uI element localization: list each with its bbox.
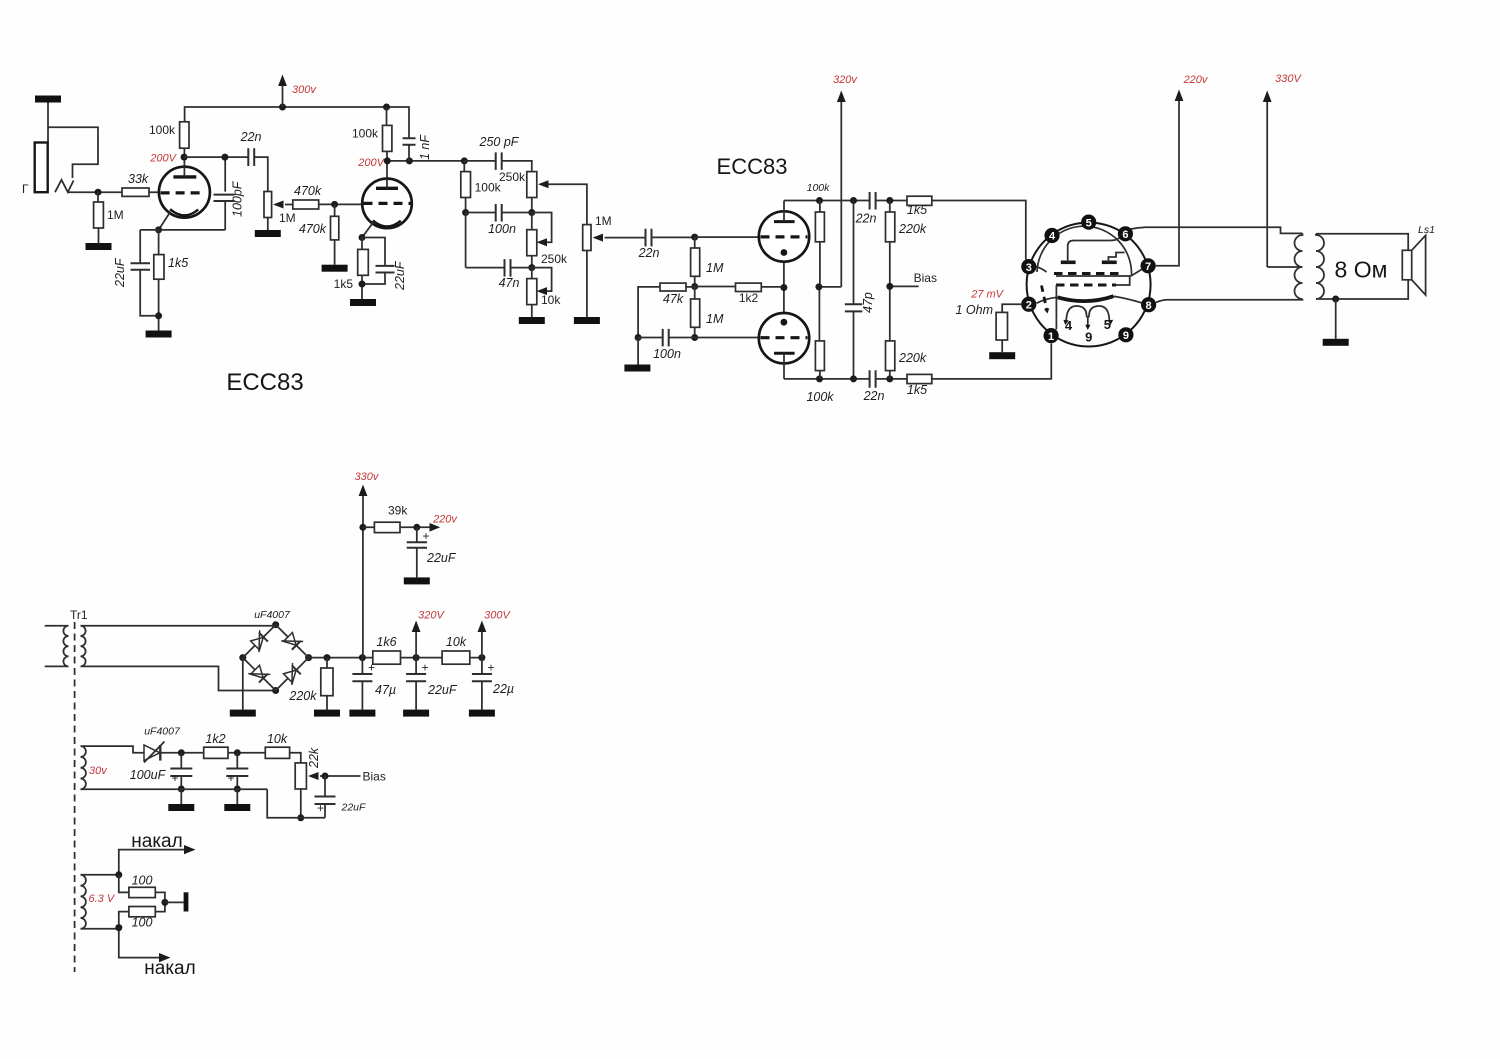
svg-text:100n: 100n xyxy=(653,347,681,361)
svg-text:1k2: 1k2 xyxy=(205,732,225,746)
svg-text:22n: 22n xyxy=(240,130,262,144)
svg-text:1M: 1M xyxy=(706,261,724,275)
svg-text:320V: 320V xyxy=(418,610,445,622)
svg-text:10k: 10k xyxy=(267,732,288,746)
svg-text:1k6: 1k6 xyxy=(376,635,396,649)
svg-text:22n: 22n xyxy=(863,389,885,403)
svg-text:накал: накал xyxy=(144,958,195,979)
svg-text:1 Ohm: 1 Ohm xyxy=(955,303,993,317)
svg-text:200V: 200V xyxy=(149,153,177,165)
svg-text:+: + xyxy=(422,661,429,675)
svg-text:22uF: 22uF xyxy=(113,257,127,288)
svg-text:+: + xyxy=(317,801,324,815)
svg-text:470k: 470k xyxy=(299,222,327,236)
svg-text:ECC83: ECC83 xyxy=(717,154,788,179)
svg-text:1M: 1M xyxy=(107,208,124,222)
svg-text:Γ: Γ xyxy=(22,182,29,196)
svg-text:Ls1: Ls1 xyxy=(1418,224,1435,236)
svg-text:100: 100 xyxy=(132,874,153,888)
svg-text:47n: 47n xyxy=(499,276,520,290)
svg-text:300v: 300v xyxy=(292,84,317,96)
svg-text:100k: 100k xyxy=(807,182,831,194)
svg-text:47p: 47p xyxy=(861,292,875,313)
svg-text:33k: 33k xyxy=(128,172,149,186)
svg-text:250 pF: 250 pF xyxy=(479,135,520,149)
svg-text:330v: 330v xyxy=(355,471,380,483)
svg-text:1 nF: 1 nF xyxy=(418,134,432,160)
svg-text:uF4007: uF4007 xyxy=(144,726,181,738)
svg-text:1k5: 1k5 xyxy=(168,256,188,270)
svg-text:1k2: 1k2 xyxy=(739,291,759,305)
svg-text:22uF: 22uF xyxy=(341,802,367,814)
svg-text:1k5: 1k5 xyxy=(334,277,354,291)
svg-text:47µ: 47µ xyxy=(375,683,396,697)
svg-text:220k: 220k xyxy=(288,689,317,703)
svg-text:220k: 220k xyxy=(898,222,927,236)
svg-text:220v: 220v xyxy=(432,514,458,526)
svg-text:8: 8 xyxy=(1146,300,1152,312)
svg-text:10k: 10k xyxy=(446,635,467,649)
svg-text:+: + xyxy=(368,661,375,675)
svg-text:1k5: 1k5 xyxy=(907,383,927,397)
svg-text:1k5: 1k5 xyxy=(907,203,927,217)
svg-text:100pF: 100pF xyxy=(231,180,245,217)
svg-text:300V: 300V xyxy=(484,610,511,622)
svg-text:8 Ом: 8 Ом xyxy=(1335,257,1388,283)
svg-text:5: 5 xyxy=(1104,317,1111,332)
svg-text:22n: 22n xyxy=(855,212,877,226)
svg-text:9: 9 xyxy=(1123,330,1129,342)
svg-text:100n: 100n xyxy=(488,222,516,236)
svg-text:100: 100 xyxy=(132,916,153,930)
svg-text:1M: 1M xyxy=(706,312,724,326)
svg-text:27 mV: 27 mV xyxy=(970,289,1004,301)
svg-text:3: 3 xyxy=(1026,262,1032,274)
svg-text:4: 4 xyxy=(1049,231,1056,243)
svg-text:100uF: 100uF xyxy=(130,768,167,782)
svg-text:+: + xyxy=(172,771,179,785)
svg-text:100k: 100k xyxy=(352,127,379,141)
svg-text:250k: 250k xyxy=(499,170,526,184)
svg-text:ECC83: ECC83 xyxy=(226,369,303,396)
svg-text:2: 2 xyxy=(1026,299,1032,311)
svg-text:47k: 47k xyxy=(663,292,684,306)
svg-text:330V: 330V xyxy=(1275,73,1302,85)
svg-text:22uF: 22uF xyxy=(426,551,457,565)
svg-text:1: 1 xyxy=(1048,331,1054,343)
svg-text:4: 4 xyxy=(1065,318,1073,333)
svg-text:5: 5 xyxy=(1086,217,1092,229)
svg-text:накал: накал xyxy=(131,831,182,852)
svg-text:250k: 250k xyxy=(541,252,568,266)
svg-text:+: + xyxy=(423,529,430,543)
svg-text:9: 9 xyxy=(1085,330,1092,345)
svg-text:200V: 200V xyxy=(357,157,385,169)
svg-text:22uF: 22uF xyxy=(393,260,407,291)
svg-text:470k: 470k xyxy=(294,184,322,198)
svg-text:10k: 10k xyxy=(541,293,561,307)
svg-text:22n: 22n xyxy=(638,246,660,260)
svg-text:100k: 100k xyxy=(806,390,834,404)
svg-text:320v: 320v xyxy=(833,74,858,86)
svg-text:Tr1: Tr1 xyxy=(70,608,88,622)
svg-text:1M: 1M xyxy=(595,214,612,228)
svg-text:1M: 1M xyxy=(279,211,296,225)
svg-text:Bias: Bias xyxy=(363,770,386,784)
svg-text:7: 7 xyxy=(1145,261,1151,273)
svg-text:100k: 100k xyxy=(475,181,502,195)
svg-text:22uF: 22uF xyxy=(427,683,458,697)
svg-text:uF4007: uF4007 xyxy=(254,609,291,621)
svg-text:220v: 220v xyxy=(1183,74,1209,86)
svg-text:6: 6 xyxy=(1122,229,1128,241)
svg-text:6.3 V: 6.3 V xyxy=(89,893,116,905)
svg-text:Bias: Bias xyxy=(914,271,937,285)
svg-text:+: + xyxy=(228,771,235,785)
svg-text:220k: 220k xyxy=(898,351,927,365)
svg-text:100k: 100k xyxy=(149,123,176,137)
svg-text:22k: 22k xyxy=(307,747,321,769)
svg-text:39k: 39k xyxy=(388,504,408,518)
svg-text:22µ: 22µ xyxy=(492,682,514,696)
svg-text:+: + xyxy=(488,661,495,675)
svg-text:30v: 30v xyxy=(89,765,108,777)
